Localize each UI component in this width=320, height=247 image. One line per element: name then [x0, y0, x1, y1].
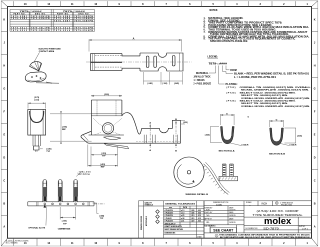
svg-text:SELECT GOLD .000030(.00076) MI: SELECT GOLD .000030(.00076) MIN.: [240, 92, 297, 94]
svg-text:B: B: [3, 203, 5, 206]
notes block top-right: [204, 10, 310, 43]
carrier labels and dims: [46, 171, 99, 226]
svg-text:BLANK = REEL PER WINDING DETAI: BLANK = REEL PER WINDING DETAIL B, SEE P…: [234, 72, 310, 75]
section A-A: [221, 127, 235, 144]
svg-text:CHK'D BY: CHK'D BY: [205, 212, 214, 214]
fine print: [219, 233, 311, 239]
svg-text:LEGEND:: LEGEND:: [208, 57, 219, 59]
svg-text:OVERALL TIN .000050(.00127) MI: OVERALL TIN .000050(.00127) MIN. OVERALL: [240, 86, 312, 89]
svg-text:7879-05L6PB: 7879-05L6PB: [74, 30, 93, 32]
svg-text:SELECT TIN .000050(.00127) MIN: SELECT TIN .000050(.00127) MIN.: [241, 103, 289, 105]
svg-text:±.13: ±.13: [181, 213, 184, 215]
svg-text:WINDING DETAIL B: WINDING DETAIL B: [186, 193, 209, 196]
svg-text:.010: .010: [191, 215, 194, 217]
svg-text:7879-05N2: 7879-05N2: [11, 18, 27, 20]
svg-text:(.100): (.100): [162, 83, 167, 85]
side view centerline: [86, 61, 192, 63]
svg-text:CONTACT AREA: CONTACT AREA: [39, 50, 55, 53]
svg-text:APPR BY: APPR BY: [205, 217, 213, 220]
svg-text:(PT26): (PT26): [227, 101, 236, 103]
svg-text:B: B: [314, 203, 316, 206]
svg-text:mm: mm: [169, 207, 173, 209]
quality symbols: [156, 210, 160, 224]
svg-text:OVERALL NICKEL UNDERPLATE .000: OVERALL NICKEL UNDERPLATE .000050(.00127…: [241, 97, 311, 100]
svg-text:DIMENSIONS: DIMENSIONS: [165, 233, 177, 235]
svg-text:A: A: [3, 226, 5, 229]
svg-text:DOCUMENT NO: DOCUMENT NO: [246, 228, 259, 230]
svg-text:.005: .005: [191, 210, 194, 212]
dims below side view: [144, 72, 183, 85]
svg-text:(2.54)/.100 XX. CRIMP: (2.54)/.100 XX. CRIMP: [257, 209, 299, 213]
svg-text:JAW ALLOY THICK: JAW ALLOY THICK: [194, 76, 211, 79]
svg-text:NICKEL UNDERPLATE .000050(.001: NICKEL UNDERPLATE .000050(.00127) MIN.: [241, 89, 310, 92]
svg-text:SECTION A-A: SECTION A-A: [219, 149, 236, 152]
svg-text:(.260): (.260): [104, 94, 109, 96]
svg-text:D: D: [314, 157, 316, 160]
svg-text:(.110): (.110): [34, 99, 39, 101]
svg-text:G: G: [3, 88, 5, 91]
svg-text:CARRIER SIDE: CARRIER SIDE: [58, 227, 71, 230]
svg-text:SECTION B-B: SECTION B-B: [269, 154, 286, 156]
svg-text:SYMBOLS: SYMBOLS: [145, 204, 154, 206]
svg-text:(.045): (.045): [174, 82, 179, 85]
legend leader lines: [209, 66, 233, 85]
svg-text:L = LOOSE, PER PK-2759-001: L = LOOSE, PER PK-2759-001: [234, 77, 277, 79]
svg-text:C: C: [3, 180, 5, 183]
third angle projection symbol: [275, 202, 278, 205]
svg-text:A: A: [133, 37, 135, 40]
svg-text:TYP PITCH: TYP PITCH: [78, 174, 91, 176]
svg-text:±.51: ±.51: [181, 221, 184, 223]
svg-text:OPTIONAL SLOTS: OPTIONAL SLOTS: [28, 226, 46, 229]
svg-text:(.008) R: (.008) R: [290, 144, 297, 146]
svg-text:7879-05N7: 7879-05N7: [54, 21, 70, 23]
svg-text:PLATING:: PLATING:: [226, 83, 238, 86]
svg-text:.015: .015: [198, 218, 201, 220]
svg-text:PROJECTION: PROJECTION: [281, 205, 293, 207]
carrier strip view: [28, 202, 105, 206]
svg-text:2 = PHOS. BRONZE: 2 = PHOS. BRONZE: [194, 84, 212, 86]
winding detail B: [174, 157, 230, 195]
section B-B: [270, 128, 284, 145]
svg-text:.005: .005: [191, 213, 194, 215]
front view top-left: [28, 109, 46, 151]
svg-text:(In)/MM: (In)/MM: [216, 204, 222, 206]
svg-text:.005: .005: [198, 210, 201, 212]
svg-text:.020: .020: [191, 221, 194, 223]
svg-text:(.025): (.025): [297, 136, 302, 138]
svg-text:SD-7879: SD-7879: [263, 226, 279, 230]
perspective sketch with contact-area callout: [25, 52, 59, 83]
side view (main): [90, 53, 183, 71]
svg-text:3 PLACES: 3 PLACES: [165, 212, 174, 215]
svg-text:±.25: ±.25: [181, 215, 184, 217]
svg-text:7879-□####: 7879-□####: [20, 10, 44, 13]
svg-text:±.38: ±.38: [181, 218, 184, 220]
svg-text:SELECT GOLD .000030(.00076) MI: SELECT GOLD .000030(.00076) MIN.: [240, 101, 297, 103]
svg-text:MUST REMAIN WITHIN: MUST REMAIN WITHIN: [165, 228, 184, 231]
svg-text:(.008) R: (.008) R: [242, 144, 249, 146]
svg-text:GENERAL TOLERANCES: GENERAL TOLERANCES: [165, 202, 196, 205]
svg-text:10/24/95: 10/24/95: [229, 222, 236, 224]
svg-text:±.13: ±.13: [181, 210, 184, 212]
svg-text:OVERALL NICKEL UNDERPLATE .000: OVERALL NICKEL UNDERPLATE .000050(.00127…: [241, 105, 311, 108]
svg-text:SELECT TIN .000050(.00127) MIN: SELECT TIN .000050(.00127) MIN.: [241, 95, 289, 97]
svg-text:7879-05L2: 7879-05L2: [11, 30, 27, 32]
svg-text:C: C: [314, 180, 316, 183]
svg-text:SEE CHART: SEE CHART: [213, 228, 234, 233]
svg-text:FORM: FORM: [230, 70, 237, 72]
svg-text:7879-05L6: 7879-05L6: [54, 30, 70, 32]
svg-text:MATERIAL: MATERIAL: [196, 72, 209, 75]
svg-text:DRAFT WHERE APPL: DRAFT WHERE APPL: [165, 225, 182, 228]
svg-text:7879-05N7PB: 7879-05N7PB: [74, 21, 93, 23]
svg-text:(.020): (.020): [183, 122, 188, 124]
pins on strip detail: [219, 164, 238, 181]
svg-text:1 = BRASS: 1 = BRASS: [194, 79, 205, 82]
svg-text:.020: .020: [198, 221, 201, 223]
part number table top-left: [10, 10, 95, 32]
svg-text:.005: .005: [198, 213, 201, 215]
svg-text:G: G: [276, 119, 278, 121]
svg-text:7879-□####: 7879-□####: [209, 63, 229, 66]
svg-text:K: K: [314, 19, 316, 22]
tolerance table: [139, 201, 205, 238]
svg-text:SPECIFICATION PS-45499-002.: SPECIFICATION PS-45499-002.: [210, 40, 248, 43]
flat view dims: [50, 95, 185, 166]
legend block: [194, 57, 312, 108]
svg-text:2 PLACES: 2 PLACES: [165, 214, 174, 217]
svg-text:7879-□####: 7879-□####: [63, 10, 87, 13]
svg-text:7879-05L2PB: 7879-05L2PB: [31, 30, 50, 32]
dim A above side view: [89, 39, 182, 51]
svg-text:1 PLACE: 1 PLACE: [165, 217, 173, 220]
svg-text:7879-05N2PB: 7879-05N2PB: [31, 18, 50, 20]
svg-text:NO. 2 ISSUED: NO. 2 ISSUED: [6, 242, 19, 244]
svg-text:1 OF 1: 1 OF 1: [302, 229, 309, 231]
svg-text:K: K: [3, 19, 5, 22]
svg-text:(.045): (.045): [148, 82, 153, 85]
svg-text:0 PLACES: 0 PLACES: [165, 220, 174, 223]
svg-text:molex: molex: [264, 216, 291, 226]
svg-text:H: H: [3, 65, 5, 68]
svg-text:(.025): (.025): [205, 135, 210, 137]
flat pattern view: [81, 100, 181, 149]
svg-text:(PT20): (PT20): [227, 92, 236, 94]
svg-text:.010: .010: [198, 215, 201, 217]
datum arrow on strip: [44, 204, 47, 207]
svg-text:G: G: [226, 113, 228, 115]
svg-text:(PT02): (PT02): [227, 87, 236, 89]
terminals on strip: [43, 180, 78, 202]
svg-text:ANGULAR ±1°: ANGULAR ±1°: [165, 222, 177, 225]
svg-text:4 PLACES: 4 PLACES: [165, 209, 174, 212]
svg-text:H: H: [314, 65, 316, 68]
svg-text:10/24/95: 10/24/95: [229, 215, 236, 217]
svg-text:G: G: [314, 88, 316, 91]
svg-text:NOTES:: NOTES:: [210, 10, 219, 12]
svg-text:A: A: [314, 226, 316, 229]
svg-text:.015: .015: [191, 218, 194, 220]
title block: [204, 201, 312, 238]
svg-text:SHT NO.: SHT NO.: [299, 226, 306, 228]
svg-text:INCH: INCH: [262, 203, 268, 205]
svg-text:D: D: [3, 157, 5, 160]
